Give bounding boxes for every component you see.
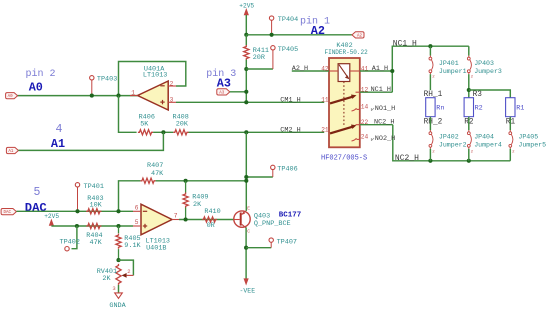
node junction R407-drop on pin6 line <box>116 209 120 213</box>
wire between R406 and R408 <box>153 131 173 133</box>
node junction TP402 drop <box>75 224 79 228</box>
power -VEE arrow <box>244 278 249 285</box>
svg-text:TP404: TP404 <box>278 16 298 24</box>
testpoint TP406 <box>271 165 275 169</box>
svg-text:10K: 10K <box>90 202 103 210</box>
svg-text:R3: R3 <box>473 91 483 99</box>
label NO1_H <box>371 108 374 111</box>
svg-text:DAC: DAC <box>3 211 11 215</box>
op-amp U401A (LT1013) pointing left <box>138 81 169 110</box>
svg-text:A1: A1 <box>8 150 14 154</box>
relay contact 2 NC stub <box>356 124 360 126</box>
svg-text:A1_H: A1_H <box>372 65 388 73</box>
svg-text:A2_H: A2_H <box>292 65 308 73</box>
node junction branch1 bottom <box>428 159 432 163</box>
wire R1 to jumper5 <box>509 117 511 131</box>
wire pin7 output line <box>179 219 234 221</box>
wire TP402 drop <box>72 226 77 249</box>
jumper JP401 <box>429 56 431 58</box>
svg-text:JP401: JP401 <box>439 60 459 67</box>
node junction TP401 <box>75 209 79 213</box>
svg-text:7: 7 <box>174 212 178 219</box>
svg-text:24: 24 <box>361 134 369 141</box>
wire A1_H stub <box>360 70 393 72</box>
node junction loop on A0 wire <box>116 94 120 98</box>
wire to TP405 <box>246 68 273 70</box>
node junction TP404 <box>270 33 274 37</box>
svg-text:JP404: JP404 <box>474 134 494 141</box>
svg-text:GNDA: GNDA <box>109 302 126 310</box>
node junction branch2 bottom <box>467 159 471 163</box>
relay contact 1 NC stub <box>356 91 360 93</box>
resistor R408 <box>173 130 188 135</box>
svg-text:TP401: TP401 <box>84 183 104 191</box>
label NO2_H <box>371 138 374 141</box>
svg-text:6: 6 <box>135 204 139 211</box>
svg-text:A1: A1 <box>51 137 65 151</box>
relay coil <box>338 64 350 82</box>
svg-text:Jumper2: Jumper2 <box>439 141 467 148</box>
svg-text:R1: R1 <box>516 104 524 112</box>
wire R3 branch to R1 <box>469 90 511 98</box>
wire branch2 upper <box>468 46 470 55</box>
node junction rail start on CM2 line <box>244 130 248 134</box>
svg-text:A2: A2 <box>311 24 325 38</box>
node junction TP407 tap <box>244 246 248 250</box>
svg-text:Rn: Rn <box>436 104 444 112</box>
svg-text:TP402: TP402 <box>60 238 80 246</box>
resistor R403 <box>86 209 101 214</box>
svg-text:R407: R407 <box>147 162 163 170</box>
op-amp U401B (LT1013) pointing right <box>141 204 172 235</box>
RV401 wiper arrow <box>122 273 127 278</box>
jumper JP404 <box>468 130 470 132</box>
relay contact 2 NO hook <box>352 138 357 141</box>
svg-text:E: E <box>247 205 250 211</box>
wire drop to R406 <box>119 96 137 133</box>
wire DAC to op-amp pin 6 <box>16 210 133 212</box>
svg-text:TP405: TP405 <box>278 46 298 54</box>
node junction jumper1 branch <box>428 44 432 48</box>
resistor R406 on CM2 line <box>138 130 153 135</box>
jumper JP405 <box>509 130 511 132</box>
op-amp U401B pin stubs <box>133 210 141 212</box>
wire top rail NC1_H <box>430 45 468 47</box>
node junction A1 tap <box>161 130 165 134</box>
svg-text:+2V5: +2V5 <box>239 3 254 10</box>
power +2V5 arrow at pin5 line <box>49 219 54 226</box>
relay K402 body <box>329 58 360 147</box>
wire rail below R411 <box>245 60 247 103</box>
svg-text:21: 21 <box>321 126 329 133</box>
wire jumper4 to bottom rail <box>468 149 470 161</box>
svg-text:CM1_H: CM1_H <box>280 96 300 104</box>
svg-text:BC177: BC177 <box>279 211 302 219</box>
resistor R409 vertical <box>185 181 187 193</box>
label R2 net <box>464 117 474 124</box>
svg-text:FINDER-50.22: FINDER-50.22 <box>325 49 369 56</box>
svg-text:5: 5 <box>135 219 139 226</box>
label R3 net <box>472 90 482 97</box>
svg-text:R410: R410 <box>204 208 220 216</box>
svg-text:R2: R2 <box>475 104 483 112</box>
node junction A3 wire on rail <box>244 90 248 94</box>
resistor R2 box <box>464 98 473 117</box>
wire A0 net from connector to op-amp U401A <box>17 95 137 97</box>
wire R407 line <box>119 181 141 212</box>
testpoint TP407 <box>269 238 273 242</box>
wire TP406 tap <box>246 176 272 178</box>
wire Rn to jumper2 <box>429 117 431 131</box>
node junction R3 tap <box>467 88 471 92</box>
svg-text:3: 3 <box>170 96 174 103</box>
resistor R410 <box>202 217 217 222</box>
svg-text:20R: 20R <box>253 54 265 62</box>
potentiometer RV401 vertical <box>116 264 121 285</box>
relay dotted actuator line <box>343 82 345 127</box>
op-amp U401A pin stubs <box>168 85 176 87</box>
svg-text:NO1_H: NO1_H <box>375 105 395 113</box>
svg-text:1: 1 <box>131 90 135 97</box>
svg-text:A3: A3 <box>219 91 225 95</box>
wire rail upper segment <box>245 35 247 46</box>
wire jumper2 to bottom rail <box>429 149 431 161</box>
relay contact 2 blade <box>330 126 354 133</box>
wire A2 net to connector <box>246 34 352 36</box>
node junction TP406 tap <box>244 175 248 179</box>
wire branch2 to R2 <box>468 74 470 98</box>
node junction TP405 wire <box>244 67 248 71</box>
svg-text:NC2_H: NC2_H <box>374 119 394 127</box>
svg-text:4: 4 <box>56 123 63 136</box>
resistor R407 <box>140 178 155 183</box>
wire collector down to -VEE <box>245 227 247 278</box>
svg-text:Jumper3: Jumper3 <box>474 68 502 75</box>
node junction R407 at rail <box>244 179 248 183</box>
connector X-A2 mirrored <box>352 32 364 38</box>
svg-text:A0: A0 <box>29 80 43 94</box>
node junction R409 top <box>184 179 188 183</box>
node junction rail/A2 wire <box>244 33 248 37</box>
node junction R409 bottom <box>184 217 188 221</box>
relay contact 1 blade <box>330 96 354 103</box>
connector X-A1 <box>6 147 18 153</box>
label RH_1 net <box>423 90 443 97</box>
op-amp U401A +/- signs <box>160 85 164 87</box>
jumper JP402 <box>429 130 431 132</box>
testpoint TP402 <box>65 247 69 251</box>
svg-text:14: 14 <box>361 104 369 111</box>
node junction A1_H riser <box>390 69 394 73</box>
svg-text:TP406: TP406 <box>277 166 297 174</box>
wire branch1 to Rn <box>429 74 431 98</box>
power +2V5 arrow top <box>244 8 249 15</box>
svg-text:2K: 2K <box>193 201 202 209</box>
label RH_2 net <box>423 117 443 124</box>
wire A3 to rail <box>230 91 247 93</box>
testpoint TP403 <box>90 76 94 80</box>
wire branch1 upper <box>429 46 431 55</box>
svg-text:U401B: U401B <box>146 244 166 252</box>
svg-text:JP402: JP402 <box>439 134 459 141</box>
svg-text:-VEE: -VEE <box>240 287 256 294</box>
resistor Rn box <box>426 98 435 117</box>
svg-text:+2V5: +2V5 <box>44 213 59 220</box>
svg-text:2: 2 <box>127 268 130 275</box>
testpoint TP404 <box>269 16 273 20</box>
svg-text:JP405: JP405 <box>518 134 538 141</box>
svg-text:47K: 47K <box>151 170 164 178</box>
connector X-DAC <box>1 209 16 215</box>
wire bottom rail NC2_H <box>430 160 510 162</box>
resistor R405 vertical <box>118 226 120 233</box>
wire wiper loop <box>119 260 134 275</box>
svg-text:NC2_H: NC2_H <box>395 154 419 163</box>
wire TP407 tap <box>246 247 271 249</box>
wire A1 to CM2 junction <box>18 132 163 150</box>
wire jumper5 to bottom rail <box>509 149 511 161</box>
wire R407 to rail <box>156 180 247 182</box>
connector X-A0 <box>6 93 18 99</box>
svg-text:C: C <box>247 229 250 235</box>
node junction TP403 on A0 wire <box>90 94 94 98</box>
jumper JP403 <box>468 56 470 58</box>
wire R408 to relay pin 21 CM2_H <box>189 131 325 133</box>
svg-text:NO2_H: NO2_H <box>375 135 395 143</box>
svg-text:5K: 5K <box>140 121 149 129</box>
transistor Q403 PNP <box>234 211 250 227</box>
ground GNDA symbol <box>115 293 123 299</box>
op-amp U401B +/- signs <box>143 210 147 212</box>
svg-text:2: 2 <box>170 80 174 87</box>
svg-text:Jumper1: Jumper1 <box>439 68 467 75</box>
relay coil pins <box>329 70 338 72</box>
svg-text:0R: 0R <box>207 222 215 230</box>
svg-text:TP407: TP407 <box>277 238 297 246</box>
wire mid rail CM2 down to transistor <box>245 132 247 211</box>
wire pin5 line <box>51 225 133 227</box>
svg-text:42: 42 <box>321 65 329 72</box>
wire RV401 to GNDA <box>118 285 120 293</box>
resistor R1 box <box>506 98 515 117</box>
svg-text:A0: A0 <box>8 95 14 99</box>
svg-text:RH_2: RH_2 <box>424 118 443 126</box>
svg-text:JP403: JP403 <box>474 60 494 67</box>
connector X-A3 <box>217 89 230 95</box>
node junction RV401 wiper loop <box>116 258 120 262</box>
svg-text:5: 5 <box>34 186 41 199</box>
testpoint TP405 <box>271 46 275 50</box>
resistor R411 vertical <box>244 45 249 60</box>
svg-text:9.1K: 9.1K <box>124 242 141 250</box>
testpoint TP401 <box>75 183 79 187</box>
svg-text:NC1_H: NC1_H <box>371 86 391 94</box>
node junction rail end on CM1 line <box>244 100 248 104</box>
wire A2_H stub <box>292 70 329 72</box>
svg-text:Q_PNP_BCE: Q_PNP_BCE <box>254 220 291 228</box>
resistor R404 <box>86 223 101 228</box>
wire NC1_H stub and riser <box>360 91 393 93</box>
node junction R405 top <box>116 224 120 228</box>
svg-text:Jumper5: Jumper5 <box>518 141 546 148</box>
svg-text:20K: 20K <box>176 121 189 129</box>
wire NC2_H stub and drop <box>360 124 393 126</box>
svg-text:2K: 2K <box>102 275 111 283</box>
svg-text:A2: A2 <box>357 34 363 38</box>
svg-text:TP403: TP403 <box>97 76 117 84</box>
label R1 net <box>505 117 515 124</box>
svg-text:pin 2: pin 2 <box>26 68 56 80</box>
svg-text:HF027/005-S: HF027/005-S <box>321 155 367 163</box>
svg-text:47K: 47K <box>90 239 103 247</box>
svg-text:Jumper4: Jumper4 <box>474 141 502 148</box>
svg-text:CM2_H: CM2_H <box>280 126 300 134</box>
svg-text:3: 3 <box>112 285 115 292</box>
wire R2 to jumper4 <box>468 117 470 131</box>
wire pin3 to CM1_H relay pin 11 <box>176 101 324 103</box>
wire U401A feedback loop <box>119 62 186 96</box>
svg-text:LT1013: LT1013 <box>143 72 167 80</box>
svg-text:NC1_H: NC1_H <box>393 40 417 49</box>
svg-text:11: 11 <box>321 96 329 103</box>
relay contact 1 NO hook <box>352 108 357 111</box>
